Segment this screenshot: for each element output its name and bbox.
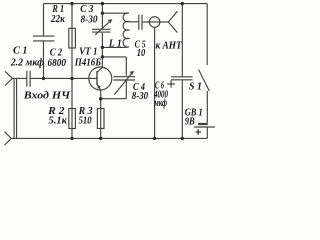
svg-text:Вход НЧ: Вход НЧ [23, 91, 72, 102]
svg-text:5.1к: 5.1к [49, 115, 68, 126]
svg-text:510: 510 [79, 115, 92, 126]
svg-text:8-30: 8-30 [81, 15, 98, 26]
svg-text:C 1: C 1 [13, 46, 28, 57]
svg-text:к АНТ: к АНТ [156, 41, 183, 52]
svg-text:8-30: 8-30 [132, 91, 148, 102]
svg-text:10: 10 [137, 48, 146, 59]
svg-text:C 3: C 3 [80, 4, 93, 15]
svg-text:L 1: L 1 [108, 39, 122, 50]
svg-text:П416Б: П416Б [74, 58, 102, 69]
svg-text:мкф: мкф [153, 98, 167, 109]
svg-text:22к: 22к [50, 14, 66, 25]
svg-text:6800: 6800 [48, 58, 67, 69]
svg-text:2.2 мкф: 2.2 мкф [10, 57, 44, 68]
svg-text:VT 1: VT 1 [79, 47, 97, 58]
svg-text:C 2: C 2 [50, 47, 62, 58]
svg-text:S 1: S 1 [189, 82, 202, 93]
svg-text:9В: 9В [185, 116, 195, 127]
